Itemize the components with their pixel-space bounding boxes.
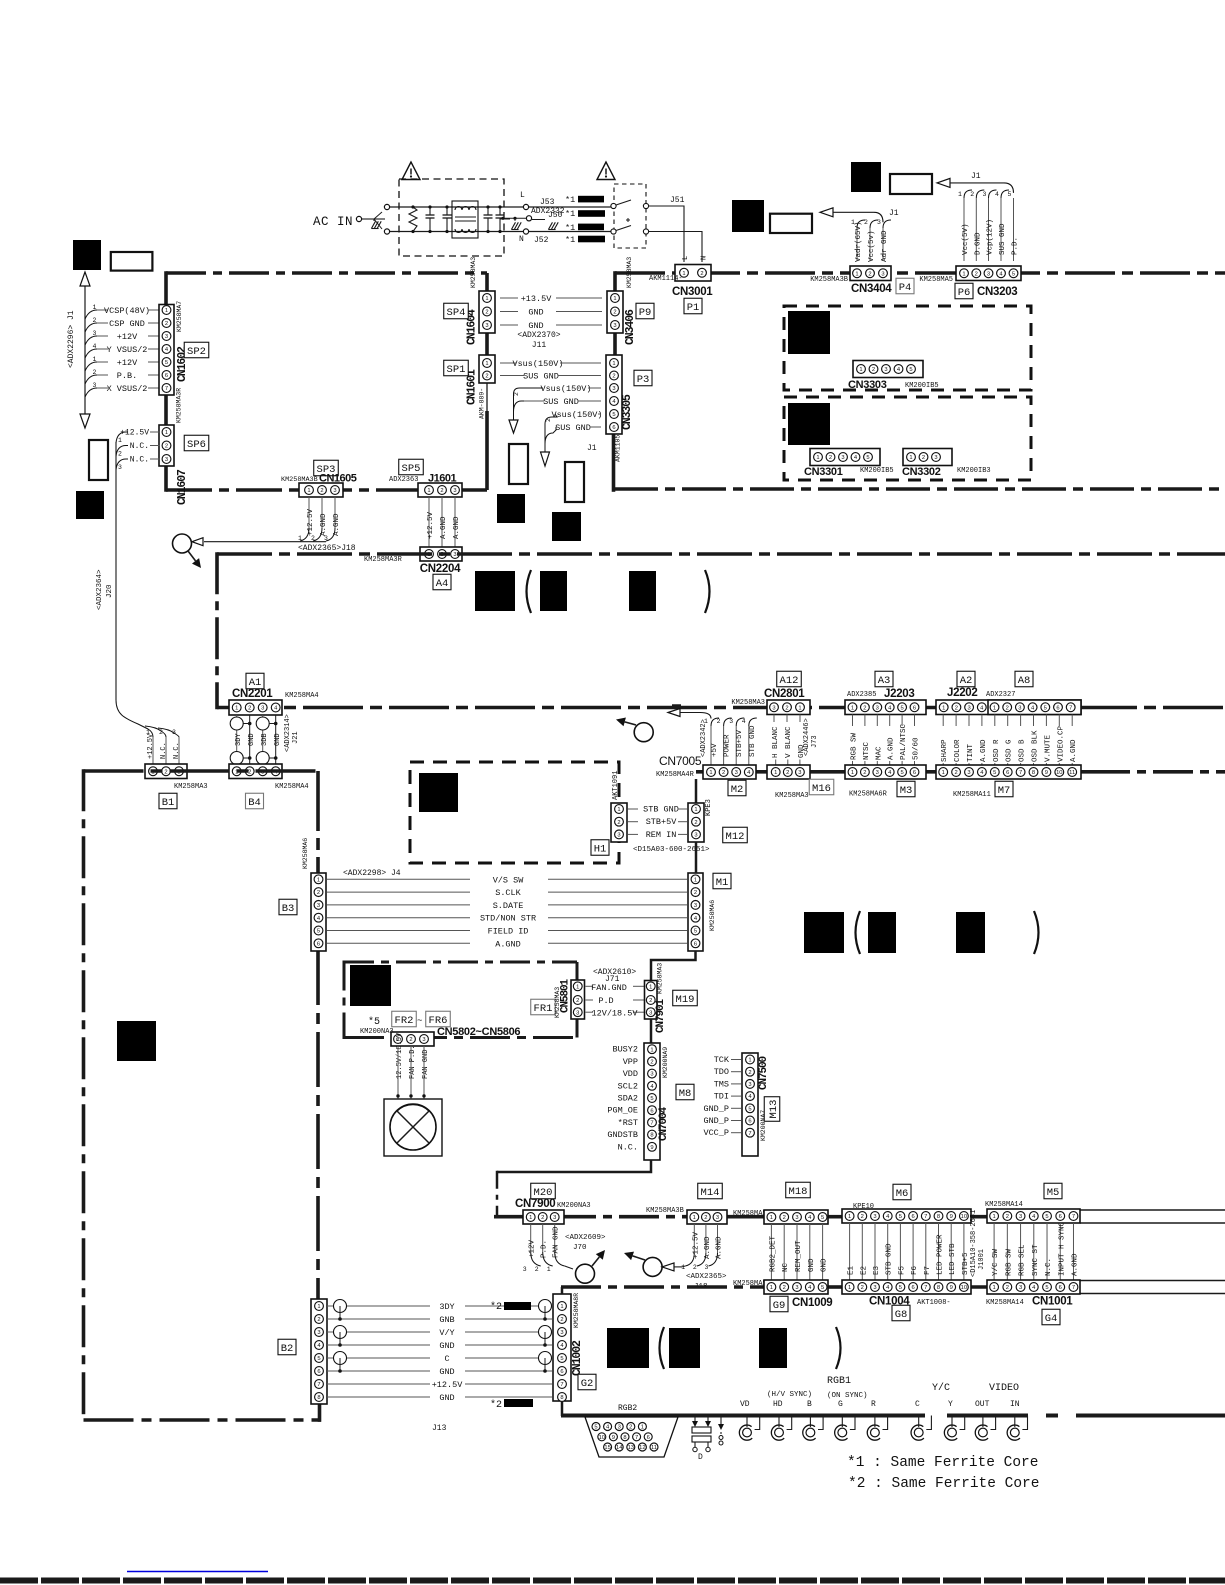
connector CN3303 — [853, 361, 923, 378]
svg-text:7: 7 — [1069, 705, 1072, 711]
svg-text:3: 3 — [317, 903, 320, 909]
svg-text:GNB: GNB — [439, 1315, 454, 1325]
svg-text:3DY: 3DY — [235, 733, 243, 746]
paren close 3 — [836, 1327, 841, 1369]
arrow down 1 — [509, 420, 518, 433]
wires into CN1607 — [150, 431, 160, 433]
G9 box — [770, 1296, 788, 1312]
svg-text:SCL2: SCL2 — [618, 1081, 638, 1091]
svg-text:3: 3 — [873, 1285, 876, 1291]
svg-text:*1: *1 — [565, 235, 575, 245]
paren open 2 — [856, 911, 861, 954]
svg-text:N.C.: N.C. — [130, 442, 149, 451]
svg-text:8: 8 — [937, 1285, 940, 1291]
svg-text:KM258MA6R: KM258MA6R — [849, 791, 888, 799]
filter capacitors C3 C4 — [487, 207, 489, 215]
svg-text:M1: M1 — [716, 877, 729, 889]
svg-text:ADX2385: ADX2385 — [847, 691, 876, 699]
svg-text:2: 2 — [694, 820, 697, 826]
svg-text:A.GND: A.GND — [495, 939, 521, 949]
svg-text:3: 3 — [798, 770, 801, 776]
svg-text:F5: F5 — [898, 1265, 906, 1275]
svg-text:N.C.: N.C. — [618, 1142, 638, 1152]
svg-text:STB+5V: STB+5V — [736, 729, 744, 757]
svg-text:J11: J11 — [532, 341, 547, 350]
svg-text:5: 5 — [694, 929, 697, 935]
svg-text:<ADX2609>: <ADX2609> — [565, 1234, 606, 1242]
svg-text:2: 2 — [541, 1215, 544, 1221]
fan curves to CN1602 pins 5-7 — [85, 362, 97, 371]
svg-text:3: 3 — [324, 535, 328, 542]
svg-text:2: 2 — [165, 444, 168, 450]
circle ref left (to J70) — [576, 1264, 595, 1283]
svg-text:*RST: *RST — [618, 1118, 638, 1128]
svg-text:3: 3 — [694, 833, 697, 839]
svg-text:15: 15 — [604, 1445, 610, 1451]
svg-text:A4: A4 — [436, 578, 449, 590]
svg-text:7: 7 — [560, 1382, 563, 1388]
svg-text:KM200IB5: KM200IB5 — [860, 467, 894, 475]
svg-text:3: 3 — [165, 457, 168, 463]
svg-text:2: 2 — [629, 1425, 632, 1431]
M6-CN1004 wires — [849, 1223, 851, 1280]
connector CN1002 (G2) — [553, 1294, 571, 1401]
svg-text:CN7004: CN7004 — [658, 1106, 670, 1141]
hook wire to P3 pin4 — [514, 401, 525, 412]
B board right edge lower — [318, 1403, 322, 1422]
svg-text:STB+5: STB+5 — [962, 1252, 970, 1275]
B3-M1 wires — [327, 878, 470, 880]
connector KPE3 (M12) — [688, 803, 704, 842]
svg-text:1: 1 — [770, 1215, 773, 1221]
svg-text:STB GND: STB GND — [749, 725, 757, 757]
M12 to M1 drop wire — [695, 842, 698, 873]
svg-text:10: 10 — [1056, 770, 1062, 776]
svg-text:J13: J13 — [432, 1424, 447, 1433]
black box top right 1 — [732, 200, 764, 232]
svg-text:RGB2: RGB2 — [618, 1404, 637, 1413]
svg-text:N.C.: N.C. — [1045, 1258, 1053, 1276]
svg-text:FAN P.D.: FAN P.D. — [409, 1045, 417, 1079]
svg-text:5: 5 — [821, 1285, 824, 1291]
svg-text:CN3001: CN3001 — [672, 286, 713, 298]
M1 box — [713, 873, 731, 889]
svg-text:5: 5 — [594, 1425, 597, 1431]
svg-text:TDO: TDO — [714, 1067, 729, 1077]
svg-text:2: 2 — [317, 890, 320, 896]
A8 box — [1015, 671, 1033, 687]
svg-text:6: 6 — [1006, 770, 1009, 776]
svg-text:GND: GND — [439, 1341, 454, 1351]
svg-text:N: N — [519, 235, 524, 244]
svg-text:5: 5 — [1008, 191, 1012, 198]
svg-text:1: 1 — [560, 1304, 563, 1310]
svg-text:CN3305: CN3305 — [621, 394, 634, 430]
svg-text:*1: *1 — [565, 209, 575, 219]
M5-CN1001 wires — [993, 1223, 995, 1280]
svg-text:Y VSUS/2: Y VSUS/2 — [107, 345, 148, 355]
svg-text:1: 1 — [613, 296, 616, 302]
terminal J53 — [523, 204, 528, 209]
connector CN3203 (P6) — [956, 266, 1021, 281]
svg-text:TCK: TCK — [714, 1055, 730, 1065]
svg-text:J50: J50 — [548, 211, 563, 220]
svg-text:1: 1 — [165, 430, 168, 436]
svg-text:P4: P4 — [899, 282, 912, 294]
svg-text:2: 2 — [955, 705, 958, 711]
svg-text:*2: *2 — [490, 1399, 502, 1411]
svg-text:CN7900: CN7900 — [515, 1198, 555, 1210]
svg-text:5: 5 — [748, 1106, 751, 1112]
svg-text:P9: P9 — [639, 307, 652, 319]
connector B3 — [311, 873, 326, 951]
svg-text:Vcc(5V): Vcc(5V) — [962, 223, 970, 255]
svg-text:3: 3 — [735, 770, 738, 776]
svg-text:CN2201: CN2201 — [232, 688, 273, 700]
svg-text:TINT: TINT — [967, 743, 975, 762]
svg-text:3: 3 — [795, 1285, 798, 1291]
svg-text:VCC_P: VCC_P — [703, 1128, 729, 1138]
svg-text:5: 5 — [900, 770, 903, 776]
svg-text:PAL/NTSC: PAL/NTSC — [900, 723, 908, 760]
svg-text:B: B — [807, 1400, 812, 1409]
svg-text:KPE3: KPE3 — [705, 799, 713, 816]
svg-text:2: 2 — [783, 1215, 786, 1221]
svg-text:3: 3 — [748, 1082, 751, 1088]
svg-text:7: 7 — [1072, 1285, 1075, 1291]
svg-text:B3: B3 — [282, 903, 295, 915]
svg-text:Y/C: Y/C — [932, 1382, 950, 1394]
filter capacitors C1 C2 — [429, 207, 431, 215]
connector CN1601 (SP1) — [479, 355, 495, 383]
svg-text:1: 1 — [427, 488, 430, 494]
svg-text:2: 2 — [576, 998, 579, 1004]
svg-text:KM258MA5: KM258MA5 — [733, 1280, 767, 1288]
svg-text:CN1001: CN1001 — [1032, 1296, 1073, 1308]
svg-text:IN: IN — [1010, 1400, 1020, 1409]
svg-text:2: 2 — [248, 706, 251, 712]
harness wire to circle ref — [204, 541, 326, 543]
svg-text:J52: J52 — [534, 236, 549, 245]
svg-text:<ADX2314>: <ADX2314> — [284, 714, 292, 752]
svg-text:CN5801: CN5801 — [560, 978, 572, 1013]
svg-text:KM258MA4R: KM258MA4R — [656, 771, 695, 779]
svg-text:3DY: 3DY — [439, 1302, 454, 1312]
svg-text:<D15A10-358-2651: <D15A10-358-2651 — [970, 1210, 978, 1277]
M5 box — [1044, 1183, 1062, 1199]
svg-text:1: 1 — [617, 807, 620, 813]
svg-text:M19: M19 — [676, 994, 695, 1006]
switch L pole — [611, 203, 616, 208]
svg-text:3: 3 — [876, 770, 879, 776]
filter resistor — [409, 207, 417, 232]
ground J50 area — [511, 222, 515, 229]
M8 box — [676, 1084, 694, 1100]
svg-text:A12: A12 — [780, 675, 799, 687]
svg-text:1: 1 — [958, 191, 962, 198]
svg-text:8: 8 — [560, 1395, 563, 1401]
wires and labels into CN1602 — [97, 309, 108, 311]
svg-text:5: 5 — [612, 412, 615, 418]
svg-text:5: 5 — [650, 1096, 653, 1102]
A board top edge — [217, 552, 1225, 556]
connector D near RGB2 — [694, 1416, 696, 1423]
warning triangle 2 — [597, 162, 615, 180]
svg-text:7: 7 — [1019, 770, 1022, 776]
svg-text:KM258MA7: KM258MA7 — [176, 301, 183, 332]
svg-text:VD: VD — [740, 1400, 750, 1409]
svg-text:J53: J53 — [540, 198, 555, 207]
svg-text:J21: J21 — [292, 731, 300, 744]
J2202/A8 to M7 wires — [942, 715, 944, 727]
svg-text:(H/V SYNC): (H/V SYNC) — [767, 1391, 812, 1399]
svg-text:2: 2 — [954, 770, 957, 776]
svg-text:~: ~ — [417, 1016, 422, 1026]
svg-text:1: 1 — [909, 455, 912, 461]
svg-text:<D15A03-600-2651>: <D15A03-600-2651> — [633, 846, 710, 854]
wire AC L to filter — [374, 218, 385, 220]
coax pair wires CN2201-B4 — [236, 715, 238, 764]
svg-text:AKM1105-: AKM1105- — [615, 431, 622, 462]
terminal J52 — [523, 229, 528, 234]
M8 to M20 row wires — [497, 1160, 651, 1172]
white box top-left — [111, 252, 153, 271]
svg-text:7: 7 — [317, 1382, 320, 1388]
svg-text:2: 2 — [872, 367, 875, 373]
connector CN3001 (P1) — [675, 265, 711, 282]
svg-text:7: 7 — [650, 1121, 653, 1127]
connector CN1604 (SP4) — [479, 291, 495, 333]
svg-text:5: 5 — [899, 1214, 902, 1220]
svg-text:M2: M2 — [731, 784, 744, 796]
G2 box — [578, 1374, 596, 1390]
svg-text:5: 5 — [899, 1285, 902, 1291]
svg-text:1: 1 — [851, 770, 854, 776]
svg-text:+5V: +5V — [711, 743, 719, 757]
arrow down 2 — [541, 452, 550, 466]
svg-text:3: 3 — [967, 770, 970, 776]
J1601 wires down to CN2204 — [428, 497, 430, 549]
svg-text:2: 2 — [118, 451, 122, 458]
black title box 3b — [669, 1328, 700, 1368]
svg-text:7: 7 — [924, 1285, 927, 1291]
connector M2 (CN7005) — [703, 765, 756, 779]
svg-text:1: 1 — [798, 705, 801, 711]
svg-text:13: 13 — [628, 1445, 634, 1451]
svg-text:STB GND: STB GND — [886, 1243, 894, 1275]
svg-text:3: 3 — [1019, 1214, 1022, 1220]
connector CN3301 — [810, 449, 880, 466]
svg-text:8: 8 — [937, 1214, 940, 1220]
svg-text:A.GND: A.GND — [716, 1236, 724, 1259]
svg-text:+12.5V: +12.5V — [120, 429, 149, 438]
svg-text:9: 9 — [950, 1214, 953, 1220]
svg-text:CSP GND: CSP GND — [109, 319, 145, 329]
svg-text:3: 3 — [618, 1425, 621, 1431]
svg-text:5: 5 — [1045, 1285, 1048, 1291]
svg-text:10: 10 — [599, 1435, 605, 1441]
extra stub with arrow — [720, 1416, 722, 1425]
svg-text:2: 2 — [613, 310, 616, 316]
M14 wires down — [693, 1224, 695, 1253]
svg-text:1: 1 — [770, 1285, 773, 1291]
black title box 1b — [540, 571, 567, 611]
connector CN1602 (SP2) — [159, 305, 174, 396]
svg-text:3DB: 3DB — [261, 733, 269, 746]
svg-text:N.C.: N.C. — [130, 456, 149, 465]
connector B4 — [229, 764, 282, 779]
CN7900 fan curl — [531, 1252, 541, 1266]
svg-text:G9: G9 — [773, 1300, 786, 1312]
svg-text:G: G — [838, 1400, 843, 1409]
wires SP1-P3 Vsus — [500, 362, 516, 364]
svg-text:1: 1 — [682, 271, 685, 277]
svg-text:AKT1008-: AKT1008- — [917, 1299, 951, 1307]
svg-text:7: 7 — [635, 1435, 638, 1441]
svg-text:KM200IB3: KM200IB3 — [957, 467, 991, 475]
svg-text:1: 1 — [859, 367, 862, 373]
svg-text:2: 2 — [485, 310, 488, 316]
svg-text:2: 2 — [165, 321, 168, 327]
svg-text:2: 2 — [864, 219, 868, 226]
svg-text:3: 3 — [884, 367, 887, 373]
svg-text:CN2801: CN2801 — [764, 688, 805, 700]
SP3 box — [314, 460, 339, 476]
svg-text:1: 1 — [693, 1215, 696, 1221]
svg-text:GND: GND — [439, 1393, 454, 1403]
M board edge line — [696, 770, 1090, 774]
svg-text:12V/18.5V: 12V/18.5V — [592, 1009, 639, 1019]
svg-text:KM200IB5: KM200IB5 — [905, 382, 939, 390]
svg-text:A8: A8 — [1018, 675, 1031, 687]
M18-CN1009 wires — [770, 1224, 772, 1280]
B4 box — [245, 793, 263, 809]
svg-text:2: 2 — [861, 1214, 864, 1220]
G4 box — [1042, 1309, 1060, 1325]
svg-text:3: 3 — [333, 488, 336, 494]
B3 box — [279, 899, 297, 915]
svg-text:KM258MA3: KM258MA3 — [174, 783, 208, 791]
svg-text:P.B.: P.B. — [117, 371, 137, 381]
svg-text:A.GND: A.GND — [980, 739, 988, 762]
svg-text:6: 6 — [913, 770, 916, 776]
svg-text:KM258MA3: KM258MA3 — [775, 792, 809, 800]
svg-text:CN3203: CN3203 — [977, 286, 1017, 298]
wire L to CN3001 — [649, 206, 685, 262]
hook wire to P3 pin3 — [514, 388, 544, 420]
svg-text:6: 6 — [911, 1285, 914, 1291]
svg-text:J1: J1 — [971, 172, 981, 181]
svg-text:J51: J51 — [670, 196, 685, 205]
fan curves to CN1602 pins 1-4 — [85, 310, 97, 319]
svg-text:FAN GND: FAN GND — [553, 1226, 561, 1258]
svg-text:3: 3 — [1019, 1285, 1022, 1291]
black box top right 2 — [851, 162, 881, 192]
svg-text:N.C.: N.C. — [160, 742, 168, 759]
connector CN1004 (G8) — [842, 1280, 971, 1294]
svg-text:KM200NA3: KM200NA3 — [360, 1028, 394, 1036]
svg-text:50/60: 50/60 — [913, 737, 921, 760]
A2 box — [957, 671, 975, 687]
svg-text:GND_P: GND_P — [703, 1104, 729, 1114]
connector CN1001 (G4) — [987, 1280, 1080, 1294]
hook wire to P3 pin5 — [545, 414, 557, 452]
svg-text:J2202: J2202 — [947, 687, 977, 699]
svg-text:A.GND: A.GND — [704, 1236, 712, 1259]
svg-text:1: 1 — [942, 770, 945, 776]
white box top right 2 — [890, 174, 932, 194]
svg-text:5: 5 — [317, 929, 320, 935]
svg-text:5: 5 — [909, 367, 912, 373]
M14 box — [698, 1183, 723, 1199]
svg-text:J2203: J2203 — [884, 688, 914, 700]
SP2 box — [184, 342, 209, 358]
open arrow to J1 (CN3404) — [820, 208, 833, 217]
connector CN3406 (P9) — [607, 291, 623, 333]
svg-text:6: 6 — [647, 1435, 650, 1441]
svg-text:AC IN: AC IN — [313, 215, 353, 229]
svg-text:TDI: TDI — [714, 1092, 729, 1102]
svg-text:3: 3 — [560, 1330, 563, 1336]
svg-text:+12.5V: +12.5V — [427, 511, 435, 539]
svg-text:3: 3 — [881, 271, 884, 277]
svg-text:3: 3 — [876, 705, 879, 711]
H board outline — [410, 762, 619, 863]
svg-text:*1 : Same Ferrite Core: *1 : Same Ferrite Core — [847, 1455, 1038, 1471]
svg-text:1: 1 — [485, 296, 488, 302]
svg-text:V/Y: V/Y — [439, 1328, 454, 1338]
svg-text:2: 2 — [717, 718, 721, 725]
pointer arrow from circle — [188, 551, 196, 561]
B2 box — [278, 1339, 296, 1355]
svg-text:COLOR: COLOR — [954, 739, 962, 762]
M14 fan curl — [685, 1253, 694, 1266]
black box label top-left — [73, 240, 101, 270]
connector CN5801 (FR1) — [571, 980, 585, 1019]
svg-text:LED STB: LED STB — [949, 1243, 957, 1275]
svg-text:2: 2 — [311, 535, 315, 542]
B1 box — [159, 793, 177, 809]
svg-text:M18: M18 — [789, 1186, 808, 1198]
svg-text:2: 2 — [786, 770, 789, 776]
svg-text:CN7901: CN7901 — [655, 998, 667, 1033]
svg-text:P6: P6 — [958, 287, 971, 299]
svg-text:OSD B: OSD B — [1019, 739, 1027, 762]
svg-text:F7: F7 — [924, 1266, 932, 1275]
svg-text:J20: J20 — [106, 584, 114, 598]
svg-text:+12.5V: +12.5V — [432, 1380, 464, 1390]
svg-text:KM258MA8R: KM258MA8R — [573, 1293, 580, 1328]
svg-text:OSD G: OSD G — [1006, 739, 1014, 762]
svg-text:V/S SW: V/S SW — [493, 875, 525, 885]
connector M8 (CN7004) — [644, 1043, 660, 1160]
svg-text:1: 1 — [748, 1058, 751, 1064]
svg-text:*1: *1 — [565, 223, 575, 233]
svg-text:1: 1 — [298, 535, 302, 542]
svg-text:KM258MA5: KM258MA5 — [733, 1210, 767, 1218]
FR1 box — [531, 999, 556, 1015]
svg-text:SP6: SP6 — [187, 439, 206, 451]
svg-text:C: C — [915, 1400, 920, 1409]
svg-text:3: 3 — [772, 705, 775, 711]
B board top edge — [84, 769, 319, 773]
svg-text:2: 2 — [650, 1060, 653, 1066]
M19 to M8 drop wire — [650, 1019, 653, 1043]
svg-text:10: 10 — [961, 1285, 967, 1291]
svg-text:2: 2 — [863, 770, 866, 776]
svg-text:1: 1 — [694, 807, 697, 813]
svg-text:E3: E3 — [873, 1265, 881, 1275]
